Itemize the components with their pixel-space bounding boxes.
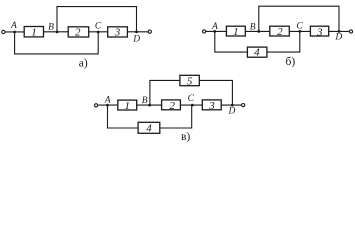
svg-text:B: B xyxy=(48,23,54,33)
svg-text:2: 2 xyxy=(169,100,175,112)
svg-text:3: 3 xyxy=(208,100,215,112)
svg-text:4: 4 xyxy=(146,122,152,134)
svg-text:б): б) xyxy=(286,56,296,68)
svg-text:4: 4 xyxy=(254,47,260,59)
svg-text:C: C xyxy=(188,94,195,104)
svg-text:1: 1 xyxy=(124,100,130,112)
svg-text:3: 3 xyxy=(114,26,121,38)
svg-text:A: A xyxy=(10,21,17,31)
svg-text:5: 5 xyxy=(187,76,193,88)
svg-text:A: A xyxy=(104,95,111,105)
svg-text:3: 3 xyxy=(316,26,323,38)
svg-text:A: A xyxy=(211,22,218,32)
svg-text:B: B xyxy=(250,22,256,32)
svg-text:2: 2 xyxy=(75,26,81,38)
svg-text:D: D xyxy=(132,34,140,44)
svg-text:1: 1 xyxy=(31,26,37,38)
svg-text:2: 2 xyxy=(277,26,283,38)
svg-text:C: C xyxy=(296,22,303,32)
svg-text:а): а) xyxy=(79,57,88,69)
svg-text:C: C xyxy=(95,22,102,32)
svg-text:1: 1 xyxy=(233,26,239,38)
svg-text:в): в) xyxy=(181,131,190,143)
svg-text:B: B xyxy=(142,96,148,106)
svg-text:D: D xyxy=(227,106,235,116)
svg-text:D: D xyxy=(334,32,342,42)
